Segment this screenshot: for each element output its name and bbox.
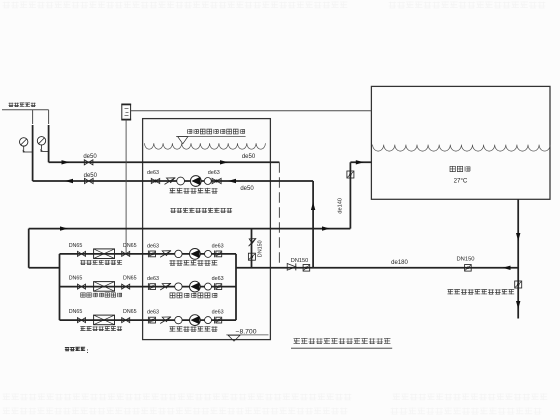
title 恒温泳池池水加热系统流程图 [294, 338, 300, 344]
pressure gauge PG1 [20, 138, 28, 146]
svg-text:DN150: DN150 [258, 240, 264, 257]
pump group line B (热水加热循环泵) [151, 179, 159, 184]
svg-text:DN65: DN65 [123, 309, 137, 315]
label 泳池排水/接市政排水 [447, 289, 453, 294]
sensor drop line [125, 120, 127, 254]
label 热水加热循环泵 3 [169, 326, 175, 331]
pressure gauge PG2 [37, 137, 45, 145]
svg-text:−8.700: −8.700 [236, 329, 257, 336]
pipe pool drain riser [517, 199, 519, 318]
label 泳池专用燃气炉 3 [80, 326, 85, 331]
pipe left drop [28, 229, 30, 268]
valve drain riser [515, 281, 522, 288]
pump group row 2 [150, 284, 156, 290]
pipe riser to line B [312, 181, 314, 268]
valve de50 A [84, 160, 93, 165]
flow arrow header-1 [60, 226, 68, 230]
svg-text:de50: de50 [240, 186, 254, 192]
flow arrow A1 [62, 160, 70, 164]
title underline [291, 347, 392, 349]
valve DN65 row2 left [78, 284, 86, 289]
flow arrow pool inlet [356, 160, 364, 164]
tank level triangle [178, 137, 188, 144]
flow arrow drain down-2 [516, 301, 520, 309]
label 图例说明: [65, 347, 70, 351]
valve DN65 row1 right [122, 251, 130, 256]
svg-text:27°C: 27°C [454, 177, 468, 184]
valve DN65 row1 left [78, 251, 86, 256]
svg-text:de50: de50 [83, 154, 97, 160]
label 游泳池 [450, 166, 455, 171]
boiler 泳池专用燃气炉 1 [94, 249, 115, 259]
svg-text:DN65: DN65 [123, 276, 137, 282]
svg-text:de50: de50 [242, 154, 256, 160]
flow arrow drain down-1 [516, 233, 520, 241]
svg-text:de63: de63 [147, 276, 159, 282]
pipe line B de50 [33, 180, 314, 182]
valve bypass [248, 253, 255, 260]
tank water surface wave [145, 143, 266, 149]
pipe overflow dashed [278, 162, 280, 267]
svg-text:DN65: DN65 [123, 243, 137, 249]
svg-text:DN65: DN65 [69, 276, 83, 282]
pipe return de180 [236, 267, 518, 269]
flow arrow riser up [311, 202, 315, 210]
flow arrow B1 [65, 179, 73, 183]
pipe boiler row 2 [60, 286, 237, 288]
pipe hx supply drop V1 [32, 110, 34, 124]
valve DN65 row2 right [122, 284, 130, 289]
pipe pool riser [349, 162, 351, 228]
pool water surface wave [373, 145, 551, 152]
label 平衡水池（兼补水用） [170, 208, 175, 213]
pipe supply header [29, 228, 351, 230]
label 热水加热循环泵 2 [170, 293, 175, 298]
label 热水加热循环泵 1 [169, 260, 175, 265]
valve DN65 row3 right [122, 318, 130, 323]
label 泳池专用燃气炉 2 [81, 293, 85, 297]
svg-text:de63: de63 [147, 244, 159, 250]
pipe line A de50 [49, 161, 280, 163]
pipe boiler row 3 [60, 319, 237, 321]
pipe left manifold [59, 254, 61, 320]
tank level mark line [176, 136, 246, 138]
check valve bypass [249, 239, 256, 247]
svg-text:de180: de180 [391, 260, 408, 266]
valve DN65 row3 left [78, 318, 86, 323]
svg-text:de63: de63 [212, 310, 224, 316]
pipe hx header [2, 109, 49, 111]
label 泳池专用燃气炉 1 [80, 260, 85, 264]
svg-text:de63: de63 [212, 276, 224, 282]
pipe hx return drop V2 [48, 110, 50, 124]
pump group row 1 [150, 251, 156, 257]
pipe right manifold [235, 254, 237, 320]
valve DN150 drain [465, 265, 472, 272]
pipe bypass riser [251, 229, 253, 268]
valve DN150 return [303, 265, 310, 272]
boiler 泳池专用燃气炉 2 [94, 282, 115, 292]
svg-text:DN150: DN150 [291, 258, 308, 264]
flow arrow B2 [228, 179, 236, 183]
pipe boiler row 1 [60, 253, 237, 255]
svg-text:de63: de63 [147, 310, 159, 316]
controller box [122, 104, 131, 120]
tank 平衡水池 outline [143, 119, 271, 340]
check valve DN150 return [287, 264, 296, 271]
sensor line to pool [131, 110, 372, 112]
label 与恒温泳池水位相平 [187, 129, 191, 134]
svg-text:DN65: DN65 [69, 243, 83, 249]
level line -8.700 [226, 334, 268, 336]
level triangle -8.700 [228, 335, 240, 341]
boiler 泳池专用燃气炉 3 [94, 315, 115, 325]
pipe left connector [29, 267, 60, 269]
svg-text:de63: de63 [147, 170, 159, 176]
flow arrow header-2 [322, 226, 330, 230]
valve de50 B [85, 178, 94, 183]
svg-text:DN65: DN65 [69, 309, 83, 315]
label 接板换热泵 [9, 103, 14, 107]
flow arrow A2 [220, 160, 228, 164]
svg-text:de50: de50 [84, 173, 98, 179]
svg-text:DN150: DN150 [456, 257, 474, 263]
flow arrow return [503, 266, 511, 270]
label 热水加热循环泵 B [169, 188, 175, 193]
svg-text:de63: de63 [208, 170, 220, 176]
pipe pool inlet [350, 161, 371, 163]
svg-text:de140: de140 [338, 198, 344, 214]
svg-text::: : [86, 348, 88, 355]
pump group row 3 [150, 317, 156, 323]
pool 游泳池 outline [371, 86, 550, 199]
svg-text:de63: de63 [212, 244, 224, 250]
valve pool riser [347, 171, 354, 178]
